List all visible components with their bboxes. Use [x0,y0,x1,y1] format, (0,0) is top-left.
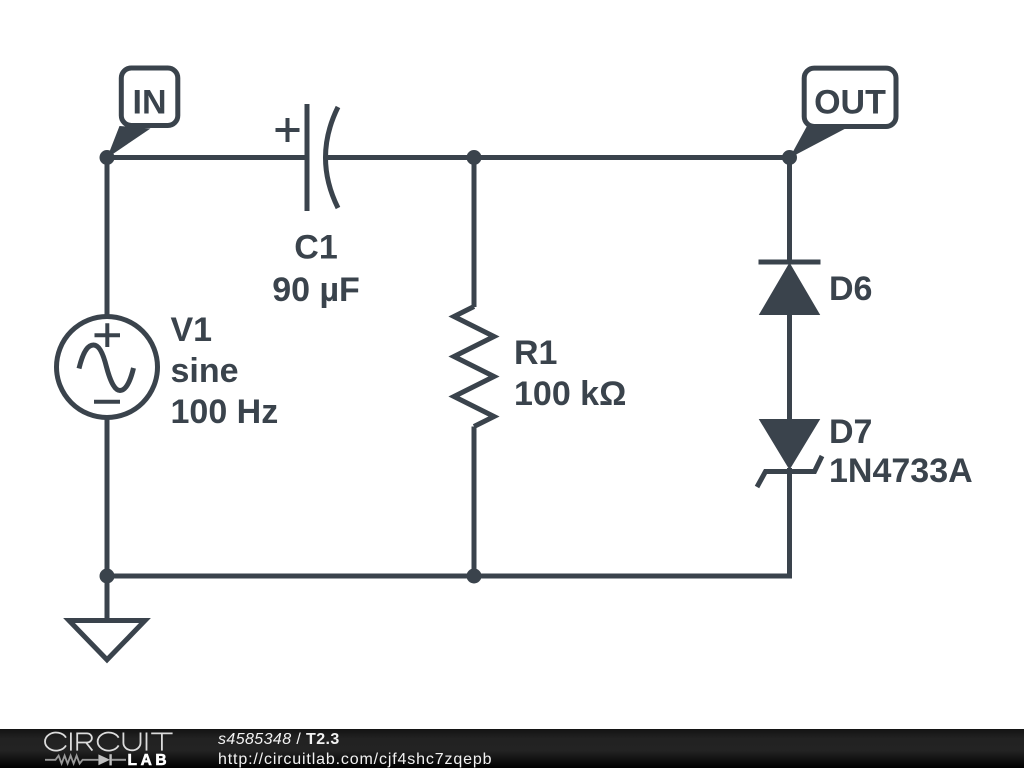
svg-text:http://circuitlab.com/cjf4shc7: http://circuitlab.com/cjf4shc7zqepb [218,751,492,768]
svg-text:OUT: OUT [814,84,886,122]
wire right rail lower and bottom rail [107,468,790,576]
node ground junction [100,569,115,584]
node R1 top junction [467,150,482,165]
node IN junction [100,150,115,165]
diode D6 [759,262,821,314]
svg-text:sine: sine [171,352,239,390]
footer bar [0,729,1024,768]
capacitor C1 [276,104,339,211]
svg-text:D7: D7 [829,413,872,451]
net label OUT [790,68,897,158]
wire D6 to D7 [787,314,792,420]
wire left rail upper: IN node to V1 [105,158,110,317]
svg-text:s4585348 / T2.3: s4585348 / T2.3 [218,731,340,748]
wire right rail: OUT node to D6 [787,158,792,263]
node OUT junction [782,150,797,165]
svg-text:R1: R1 [514,334,557,372]
wire left rail lower: V1 to bottom rail [105,418,110,576]
wire top left: IN node to C1 plate [107,155,306,160]
ground [69,576,145,660]
svg-text:1N4733A: 1N4733A [829,452,973,490]
svg-text:IN: IN [133,84,167,122]
wire R1 branch upper [472,158,477,308]
svg-text:C1: C1 [294,229,337,267]
footer logo CIRCUIT text [45,733,173,751]
footer title line [218,731,340,748]
svg-text:100 Hz: 100 Hz [171,393,279,431]
svg-text:V1: V1 [171,311,213,349]
label C1 value [272,229,360,310]
wire top right: C1 to OUT node [327,155,790,160]
svg-text:90 µF: 90 µF [272,271,360,309]
footer logo resistor-diode squiggle [45,754,126,765]
resistor R1 [454,307,494,427]
label D7 value [829,413,973,490]
svg-text:100 kΩ: 100 kΩ [514,375,626,413]
footer logo LAB text [128,752,171,768]
net label IN [107,68,178,158]
label V1 value [171,311,279,431]
label D6 [829,270,872,308]
wire R1 branch lower [472,427,477,577]
svg-text:D6: D6 [829,270,872,308]
zener diode D7 [757,420,822,487]
label R1 value [514,334,626,413]
node R1 bottom junction [467,569,482,584]
svg-text:LAB: LAB [128,752,171,768]
footer url line [218,751,492,768]
voltage source V1 [57,317,158,418]
